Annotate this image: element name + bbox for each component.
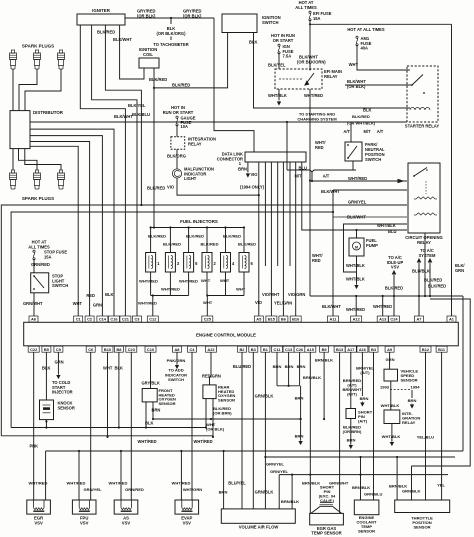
ECM pin C23: [126, 346, 137, 352]
injector 3: [163, 242, 181, 273]
wire: A/T branch into park/neutral switch: [343, 122, 383, 142]
ECM pin B11: [436, 346, 447, 352]
svg-text:15A: 15A: [44, 254, 52, 259]
svg-text:BLU/RED: BLU/RED: [233, 364, 251, 369]
ECM pin B6: [279, 316, 288, 322]
ECM pin C25: [202, 316, 213, 322]
svg-text:A13: A13: [379, 317, 387, 322]
svg-text:WHT/RED: WHT/RED: [346, 307, 365, 312]
svg-text:C23: C23: [128, 347, 136, 352]
distributor: [10, 110, 64, 149]
fuel injector supply bus: [150, 219, 246, 253]
svg-text:WHT/RED: WHT/RED: [138, 439, 157, 444]
wire: GRN/WHT to ECM A6: [23, 293, 43, 316]
wire: igniter pin4 BLK/WHT to ignition coil: [97, 25, 144, 79]
wire: DLC BRN ground pin: [238, 162, 249, 177]
svg-text:BLK: BLK: [145, 421, 153, 426]
svg-text:YEL: YEL: [437, 483, 445, 488]
svg-text:ALL TIMES: ALL TIMES: [295, 5, 317, 10]
wire: GRN/YEL bus (left wrap) to circuit opening relay: [1, 200, 407, 436]
wire: C11 C13 C26 BRN merge: [273, 352, 306, 387]
svg-text:C1: C1: [76, 317, 82, 322]
svg-text:BLK: BLK: [105, 292, 113, 297]
wire: coil BLK/RED down to injector bus: [147, 88, 165, 229]
svg-text:C6: C6: [88, 347, 94, 352]
svg-text:VSV: VSV: [34, 520, 43, 525]
wire: relay output down right side: [424, 233, 442, 296]
wire: B8 BLK to sensor BLK net: [115, 352, 123, 428]
node: TO STARTING AND CHARGING SYSTEM: [297, 112, 337, 122]
wire: EFI relay WHT/BLK ground: [268, 89, 287, 105]
data link connector: [217, 152, 306, 167]
svg-text:C13: C13: [285, 347, 293, 352]
svg-text:WHT/BLK: WHT/BLK: [381, 403, 400, 408]
svg-text:C12: C12: [149, 317, 157, 322]
EGR VSV: [27, 500, 51, 525]
svg-text:A11: A11: [330, 317, 338, 322]
wire: distributor GRN to ECM C14: [30, 136, 102, 316]
wire: B1 to VAF and GRN/YEL bus: [264, 352, 266, 509]
svg-text:GRN/YEL: GRN/YEL: [84, 487, 103, 492]
throttle position sensor: [395, 500, 450, 530]
starter relay: [405, 66, 440, 129]
svg-text:WHT/RED: WHT/RED: [109, 481, 128, 486]
svg-text:SENSOR: SENSOR: [58, 405, 75, 410]
svg-text:(OR BLK/ORG): (OR BLK/ORG): [157, 31, 187, 36]
svg-text:HOT AT ALL TIMES: HOT AT ALL TIMES: [347, 27, 385, 32]
wire: throttle sensor BRN/BLK + GRN/BLK: [389, 456, 421, 500]
ECM pin A11: [328, 316, 339, 322]
wire: VAF BRN: [219, 451, 228, 509]
engine coolant temp sensor: [354, 500, 379, 534]
node: TO A/C SYSTEM: [412, 248, 446, 316]
svg-text:B8: B8: [116, 347, 122, 352]
svg-text:STARTER RELAY: STARTER RELAY: [405, 124, 440, 129]
label BRN/BLK pair: [303, 358, 333, 381]
svg-text:C22: C22: [30, 347, 38, 352]
ECM pin A8: [173, 346, 182, 352]
svg-text:B5: B5: [44, 347, 50, 352]
short pin (A/T): [346, 409, 373, 424]
wire: A8 PNK/GRN TO ADD INDICATOR SWITCH: [165, 352, 187, 382]
wire: VSS 1993/1994 split: [380, 381, 420, 410]
AM1 fuse 40A HOT AT ALL TIMES: [347, 27, 385, 51]
ECM pin C26: [294, 346, 305, 352]
malfunction indicator light: [172, 167, 214, 182]
svg-text:BLK/RED: BLK/RED: [148, 234, 166, 239]
svg-text:VSV: VSV: [183, 520, 192, 525]
wire: fuel pump WHT/BLK ground: [346, 256, 365, 288]
ECM pin B3: [249, 346, 258, 352]
svg-text:PNK/GRN: PNK/GRN: [167, 358, 186, 363]
node: TO A/C IDLE-UP VSV: [385, 255, 404, 316]
svg-text:WHT: WHT: [203, 300, 213, 305]
wire: distributor RED to ECM C2: [30, 142, 95, 317]
ECM pin C16: [109, 316, 120, 322]
ECM pin C6: [86, 346, 95, 352]
wire: BLK/YEL to EFI main relay: [268, 53, 286, 69]
EFI main relay: [275, 69, 342, 89]
svg-text:BLU: BLU: [299, 166, 307, 171]
wire: coolant sensor BRN/BLK + GRN/BLU: [352, 456, 383, 500]
wire: switched power rail y296: [310, 295, 463, 297]
svg-text:RUN OR START: RUN OR START: [163, 110, 194, 115]
wire: VAF GRN/YEL from bus: [270, 469, 289, 509]
svg-text:7.5A: 7.5A: [283, 54, 292, 59]
svg-text:WHT/RED: WHT/RED: [161, 287, 180, 292]
svg-text:RED: RED: [312, 258, 321, 263]
wire: knock sensor shield to WHT net: [45, 420, 47, 429]
wire: EGR VSV WHT/RED feed: [29, 451, 48, 500]
svg-text:GRN/RED: GRN/RED: [125, 487, 144, 492]
svg-text:BRN: BRN: [238, 167, 247, 172]
svg-text:SENSOR: SENSOR: [159, 401, 176, 406]
wire: VAF BRN/BLK: [281, 474, 299, 509]
wire: BRN ground chain: [295, 386, 304, 445]
svg-text:SENSOR: SENSOR: [401, 378, 418, 383]
ECM pin B16: [290, 316, 301, 322]
wire: A12 feed: [346, 296, 365, 316]
svg-text:BLK/RED: BLK/RED: [147, 186, 165, 191]
svg-text:BRN: BRN: [295, 396, 304, 401]
svg-text:SWITCH: SWITCH: [365, 157, 381, 162]
svg-text:C24: C24: [390, 317, 398, 322]
svg-text:BLK/RED: BLK/RED: [428, 284, 446, 289]
wire: A7 feed: [418, 295, 420, 316]
spark plugs (lower bank): [9, 170, 64, 201]
ECM pin A13: [377, 316, 388, 322]
svg-text:WHT/BLK: WHT/BLK: [377, 223, 396, 228]
svg-text:BRN: BRN: [347, 438, 356, 443]
ECM pin A22: [206, 346, 217, 352]
svg-text:BLK/RED: BLK/RED: [424, 278, 442, 283]
svg-text:BLK/WHT: BLK/WHT: [322, 304, 341, 309]
ignition switch: [222, 14, 281, 33]
wire: BLK/ORG to malfunction indicator light: [167, 149, 186, 169]
svg-text:A15: A15: [307, 347, 315, 352]
ECM pin B8: [114, 346, 123, 352]
ECM pin A1: [447, 316, 456, 322]
svg-text:GRN: GRN: [455, 268, 464, 273]
wire: injectors 2-4-6 WHT returns to ECM C25: [201, 272, 246, 316]
wire: rear O2 WHT (OR BLK): [206, 399, 225, 438]
spark plugs (upper bank): [9, 44, 64, 70]
svg-text:B4: B4: [371, 347, 377, 352]
wire: B5 BLK to knock sensor: [42, 352, 50, 400]
svg-text:BRN/BLK: BRN/BLK: [302, 480, 320, 485]
fuel pump: [349, 238, 378, 256]
svg-text:BLK: BLK: [249, 40, 257, 45]
wire: park/neutral M/T-A/T merge bracket: [286, 121, 356, 182]
svg-text:BRN: BRN: [408, 398, 417, 403]
svg-text:GRN/BLK: GRN/BLK: [255, 490, 274, 495]
svg-text:B6: B6: [281, 317, 287, 322]
svg-text:SWITCH: SWITCH: [52, 283, 68, 288]
wire: igniter GRY/RED tachometer lead: [125, 9, 214, 20]
wire: C23 GRN/RED to AS VSV: [130, 352, 132, 500]
svg-text:RELAY: RELAY: [324, 74, 338, 79]
wire: AM1 WHT to starter relay: [349, 45, 410, 70]
svg-text:GRN: GRN: [386, 357, 395, 362]
ECM pin B12: [420, 346, 431, 352]
svg-text:B12: B12: [422, 347, 430, 352]
svg-text:ENGINE CONTROL MODULE: ENGINE CONTROL MODULE: [196, 333, 256, 338]
svg-text:VSV: VSV: [80, 520, 89, 525]
svg-text:BRN/BLK: BRN/BLK: [352, 485, 370, 490]
svg-text:WHT/RED: WHT/RED: [138, 301, 157, 306]
integration relay (lower): [384, 410, 420, 425]
circuit opening relay: [405, 163, 442, 245]
svg-text:WHT: WHT: [236, 287, 246, 292]
svg-text:A16: A16: [359, 347, 367, 352]
svg-text:WHT/RED: WHT/RED: [67, 481, 86, 486]
svg-text:(OR BLK): (OR BLK): [347, 84, 366, 89]
wire: EVAP VSV WHT/RED + WHT/GRN: [172, 451, 203, 500]
wire: igniter pin3 BLK/YEL down to bus: [105, 25, 146, 206]
ECM pin C14: [97, 316, 108, 322]
FPU VSV: [72, 500, 96, 525]
svg-text:C2: C2: [87, 317, 93, 322]
svg-text:C9: C9: [56, 347, 62, 352]
svg-text:WHT: WHT: [73, 301, 83, 306]
svg-text:A17: A17: [347, 347, 354, 352]
svg-text:A1: A1: [449, 317, 455, 322]
svg-text:VIO: VIO: [167, 185, 175, 190]
ECM pin A5: [254, 316, 263, 322]
wire: B3 GRN/BLK to VAF: [253, 352, 273, 509]
svg-text:VIO/WHT: VIO/WHT: [262, 292, 280, 297]
svg-text:BRN: BRN: [297, 364, 306, 369]
svg-text:A/T: A/T: [377, 129, 384, 134]
svg-text:(OR BLK/ORN): (OR BLK/ORN): [297, 60, 326, 65]
wire: ignition switch BLK to starter relay: [249, 33, 410, 113]
svg-text:SYSTEM: SYSTEM: [419, 253, 436, 258]
wire: rear O2 BLK/RED (OR BRN): [205, 399, 232, 429]
svg-text:BLK/RED: BLK/RED: [201, 242, 219, 247]
wire: igniter pin1 to ECM C21: [80, 25, 125, 316]
ECM pin C11: [272, 346, 283, 352]
ECM pin B5: [42, 346, 51, 352]
ECM pin C13: [283, 346, 294, 352]
wire: C9 GRN to cold start injector: [52, 352, 73, 394]
injector 4: [221, 234, 242, 273]
rear heated oxygen sensor: [203, 385, 235, 403]
svg-text:VIO/GRN: VIO/GRN: [288, 292, 305, 297]
svg-text:IGNITER: IGNITER: [92, 8, 111, 13]
wire: WHT/RED supply bus: [46, 439, 463, 452]
ECM pin A7: [415, 316, 424, 322]
wire: tach net to data link connector: [214, 18, 254, 152]
svg-text:(OR BRN): (OR BRN): [213, 411, 232, 416]
svg-text:WHT: WHT: [220, 278, 230, 283]
svg-text:SENSOR: SENSOR: [358, 529, 375, 534]
svg-text:BLU/BLK: BLU/BLK: [412, 269, 430, 274]
ECM pin C1: [74, 316, 83, 322]
svg-text:(OR BLK): (OR BLK): [183, 14, 202, 19]
svg-text:SWITCH: SWITCH: [262, 20, 279, 25]
ECM pin B13: [334, 346, 345, 352]
svg-text:A12: A12: [353, 317, 361, 322]
node: tach branch BLK (OR BLK/ORG) TO TACHOMETER: [153, 18, 188, 47]
svg-text:BLK/RED: BLK/RED: [149, 77, 167, 82]
svg-text:C25: C25: [204, 317, 212, 322]
wire: DLC VIO pin to ECM A5: [250, 162, 262, 316]
injector 1: [146, 234, 166, 273]
svg-text:VSV: VSV: [122, 520, 131, 525]
svg-text:M/T: M/T: [363, 129, 371, 134]
svg-text:A9: A9: [387, 347, 393, 352]
svg-text:(1994 ONLY): (1994 ONLY): [240, 185, 265, 190]
svg-text:TEMP SENSOR: TEMP SENSOR: [311, 531, 341, 536]
wire: A9 GRN to vehicle speed sensor: [386, 352, 395, 369]
svg-text:RELAY: RELAY: [188, 141, 202, 146]
wire: DLC VIO/GRN pin to ECM B16: [288, 162, 305, 316]
svg-text:GRN/WHT: GRN/WHT: [23, 301, 43, 306]
svg-text:WHT/BLK: WHT/BLK: [268, 93, 287, 98]
svg-text:VSV: VSV: [391, 265, 399, 270]
labels: EGR gas temp short pin: [302, 480, 349, 503]
wire: B13 GRN/WHT to EGR gas temp sensor: [339, 352, 341, 513]
svg-text:BLK: BLK: [363, 108, 371, 113]
wire: distributor to lower plug leads: [13, 149, 61, 170]
svg-text:BLK/RED: BLK/RED: [97, 30, 115, 35]
knock sensor: [40, 400, 75, 420]
wire: injectors 1-3-5 WHT/RED returns to ECM C12: [138, 272, 198, 316]
ECM pin C9: [54, 346, 63, 352]
svg-text:CHARGING SYSTEM: CHARGING SYSTEM: [297, 117, 337, 122]
wire: distributor BLK to ECM C16: [30, 129, 114, 316]
ECM pin B2: [238, 346, 247, 352]
svg-text:FUEL INJECTORS: FUEL INJECTORS: [180, 219, 218, 224]
wire: C24 feed: [393, 295, 395, 316]
svg-text:A22: A22: [207, 347, 215, 352]
svg-text:GRN/RED: GRN/RED: [31, 262, 50, 267]
svg-text:OR START: OR START: [273, 38, 294, 43]
wire: DLC VIO/WHT pin to ECM B15: [262, 162, 280, 316]
wire: WHT sensor net: [1, 435, 213, 437]
svg-text:WHT/BLK: WHT/BLK: [346, 263, 365, 268]
ECM pin B4: [369, 346, 378, 352]
wire: C10 GRY/BLK to front oxygen sensor: [142, 352, 160, 388]
svg-text:BLK/RED: BLK/RED: [186, 234, 204, 239]
svg-text:BLK: BLK: [115, 366, 123, 371]
label: BLK/RED (OR WHT/BLK) on NE line: [347, 114, 376, 126]
svg-text:TO TACHOMETER: TO TACHOMETER: [153, 42, 188, 47]
svg-text:B3: B3: [251, 347, 257, 352]
svg-text:GRN/BLK: GRN/BLK: [255, 394, 274, 399]
wire: distributor WHT to ECM C1: [30, 146, 82, 316]
ECM pin B9: [320, 346, 329, 352]
svg-text:C10: C10: [147, 347, 154, 352]
svg-text:BRN: BRN: [273, 364, 282, 369]
AS VSV: [114, 500, 138, 525]
svg-text:BLK/RED: BLK/RED: [163, 242, 181, 247]
svg-text:B13: B13: [336, 347, 344, 352]
ECM pin A9: [385, 346, 394, 352]
svg-text:WHT: WHT: [103, 366, 113, 371]
svg-text:WHT/RED: WHT/RED: [373, 304, 392, 309]
wire: C4 WHT/GRN to EVAP VSV: [191, 352, 193, 500]
svg-text:A8: A8: [175, 347, 181, 352]
svg-text:BLK/RED: BLK/RED: [172, 83, 190, 88]
wire: DLC BLU pin to circuit opening relay: [299, 162, 408, 234]
svg-text:BLK/WHT: BLK/WHT: [113, 37, 132, 42]
svg-text:WHT/BLK: WHT/BLK: [346, 277, 365, 282]
svg-text:C11: C11: [274, 347, 282, 352]
svg-text:SWITCH: SWITCH: [168, 377, 184, 382]
svg-text:B9: B9: [322, 347, 328, 352]
svg-text:A/T: A/T: [323, 174, 330, 179]
ECM pin C2: [85, 316, 94, 322]
wire: integration relay WHT/BLK ground: [382, 424, 401, 446]
ECM pin C3: [133, 316, 142, 322]
svg-text:B16: B16: [292, 317, 300, 322]
svg-text:(OR BLK): (OR BLK): [137, 14, 156, 19]
svg-text:B1: B1: [263, 347, 269, 352]
svg-text:RED/GRN: RED/GRN: [202, 374, 221, 379]
wire: coil negative BLK/RED junction: [149, 68, 167, 89]
svg-text:RED: RED: [315, 145, 324, 150]
wire: right wrap rail 1: [462, 296, 464, 451]
stop fuse 15A HOT AT ALL TIMES: [28, 240, 67, 260]
svg-text:PUMP: PUMP: [366, 243, 378, 248]
wire: igniter pin2 BLK/BLU to ECM C3: [92, 25, 150, 316]
ECM pin B15: [266, 316, 277, 322]
svg-text:WHT/RED: WHT/RED: [172, 481, 191, 486]
svg-text:B15: B15: [268, 317, 276, 322]
wire: distributor BLK/WHT (NE) to starter relay / park-neutral net: [30, 114, 407, 122]
svg-text:GRN/BLU: GRN/BLU: [364, 492, 383, 497]
svg-text:BRN: BRN: [360, 396, 369, 401]
svg-text:C21: C21: [122, 317, 130, 322]
injector 6: [238, 242, 256, 273]
wire: BLK sensor net: [11, 427, 206, 429]
wire: B1 GRN/YEL bus: [265, 457, 455, 467]
svg-text:YEL/BLU: YEL/BLU: [417, 435, 434, 440]
svg-text:C3: C3: [135, 317, 141, 322]
svg-text:RED: RED: [86, 293, 95, 298]
wire: VIO from MIL to A5 node: [167, 178, 265, 196]
svg-text:GRY/BLK: GRY/BLK: [142, 381, 160, 386]
wire: BLK/RED coil feed from ignition switch: [154, 33, 228, 88]
ECM pin A12: [351, 316, 362, 322]
svg-text:CALIF.): CALIF.): [320, 498, 335, 503]
svg-text:VIO: VIO: [250, 172, 258, 177]
wire: short pin BLK/RED (OR BRN) ground: [343, 419, 362, 449]
EFI fuse 15A HOT AT ALL TIMES: [295, 0, 331, 21]
wire: front O2 BLK to BLK net: [145, 402, 154, 429]
svg-text:C16: C16: [110, 317, 118, 322]
svg-text:VOLUME AIR FLOW: VOLUME AIR FLOW: [239, 525, 279, 530]
ECM pin C10: [145, 346, 156, 352]
svg-text:BLK/ORG: BLK/ORG: [167, 154, 186, 159]
svg-text:A6: A6: [31, 317, 37, 322]
wire: lower GRN bus: [279, 474, 448, 476]
gauge fuse 10A HOT IN RUN OR START: [163, 105, 196, 129]
ECM pin A15: [305, 346, 316, 352]
svg-text:SPARK PLUGS: SPARK PLUGS: [22, 44, 54, 49]
svg-text:DISTRIBUTOR: DISTRIBUTOR: [33, 110, 64, 115]
wire: B4 GRN/BLU to coolant temp sensor: [373, 352, 375, 500]
EGR gas temp sensor: [310, 503, 344, 536]
svg-text:YEL/GRN: YEL/GRN: [274, 301, 292, 306]
ECM pin C21: [120, 316, 131, 322]
wire: right wrap rail 2: [412, 299, 471, 466]
volume air flow meter: [221, 509, 295, 530]
svg-text:BLK/YEL: BLK/YEL: [268, 63, 286, 68]
park/neutral position switch: [345, 142, 385, 162]
svg-text:40A: 40A: [361, 46, 369, 51]
